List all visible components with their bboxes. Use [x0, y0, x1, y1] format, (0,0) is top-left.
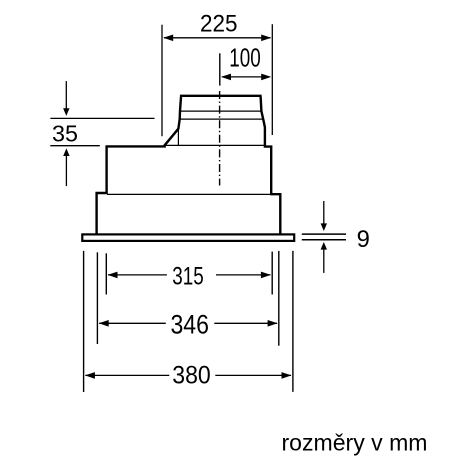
svg-text:9: 9	[357, 226, 370, 253]
svg-text:315: 315	[172, 264, 204, 291]
svg-text:380: 380	[172, 363, 211, 390]
svg-text:225: 225	[200, 11, 238, 38]
svg-text:35: 35	[52, 121, 78, 147]
svg-text:100: 100	[229, 45, 261, 73]
svg-text:rozměry v mm: rozměry v mm	[282, 429, 428, 455]
svg-text:346: 346	[170, 309, 209, 340]
